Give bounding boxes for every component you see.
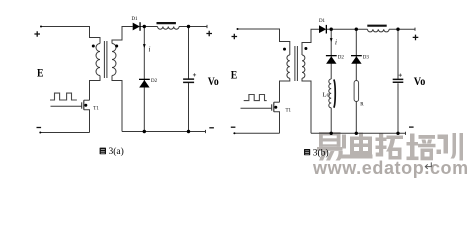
svg-text:D1: D1 <box>131 17 138 22</box>
svg-text:3(b): 3(b) <box>313 147 329 158</box>
svg-text:Lo: Lo <box>323 91 330 98</box>
svg-text:D3: D3 <box>363 55 370 60</box>
svg-text:D2: D2 <box>338 55 345 60</box>
svg-text:i: i <box>149 46 151 54</box>
svg-text:Vo: Vo <box>414 76 426 88</box>
svg-text:T1: T1 <box>286 109 292 114</box>
svg-text:E: E <box>37 68 44 80</box>
svg-text:E: E <box>231 70 238 82</box>
svg-text:Vo: Vo <box>208 76 219 88</box>
svg-text:www.edatop.com: www.edatop.com <box>312 158 469 178</box>
svg-text:D1: D1 <box>319 19 326 24</box>
svg-text:i: i <box>335 38 337 46</box>
svg-text:3(a): 3(a) <box>109 146 124 157</box>
svg-text:T1: T1 <box>93 107 99 112</box>
svg-text:D2: D2 <box>151 79 158 84</box>
